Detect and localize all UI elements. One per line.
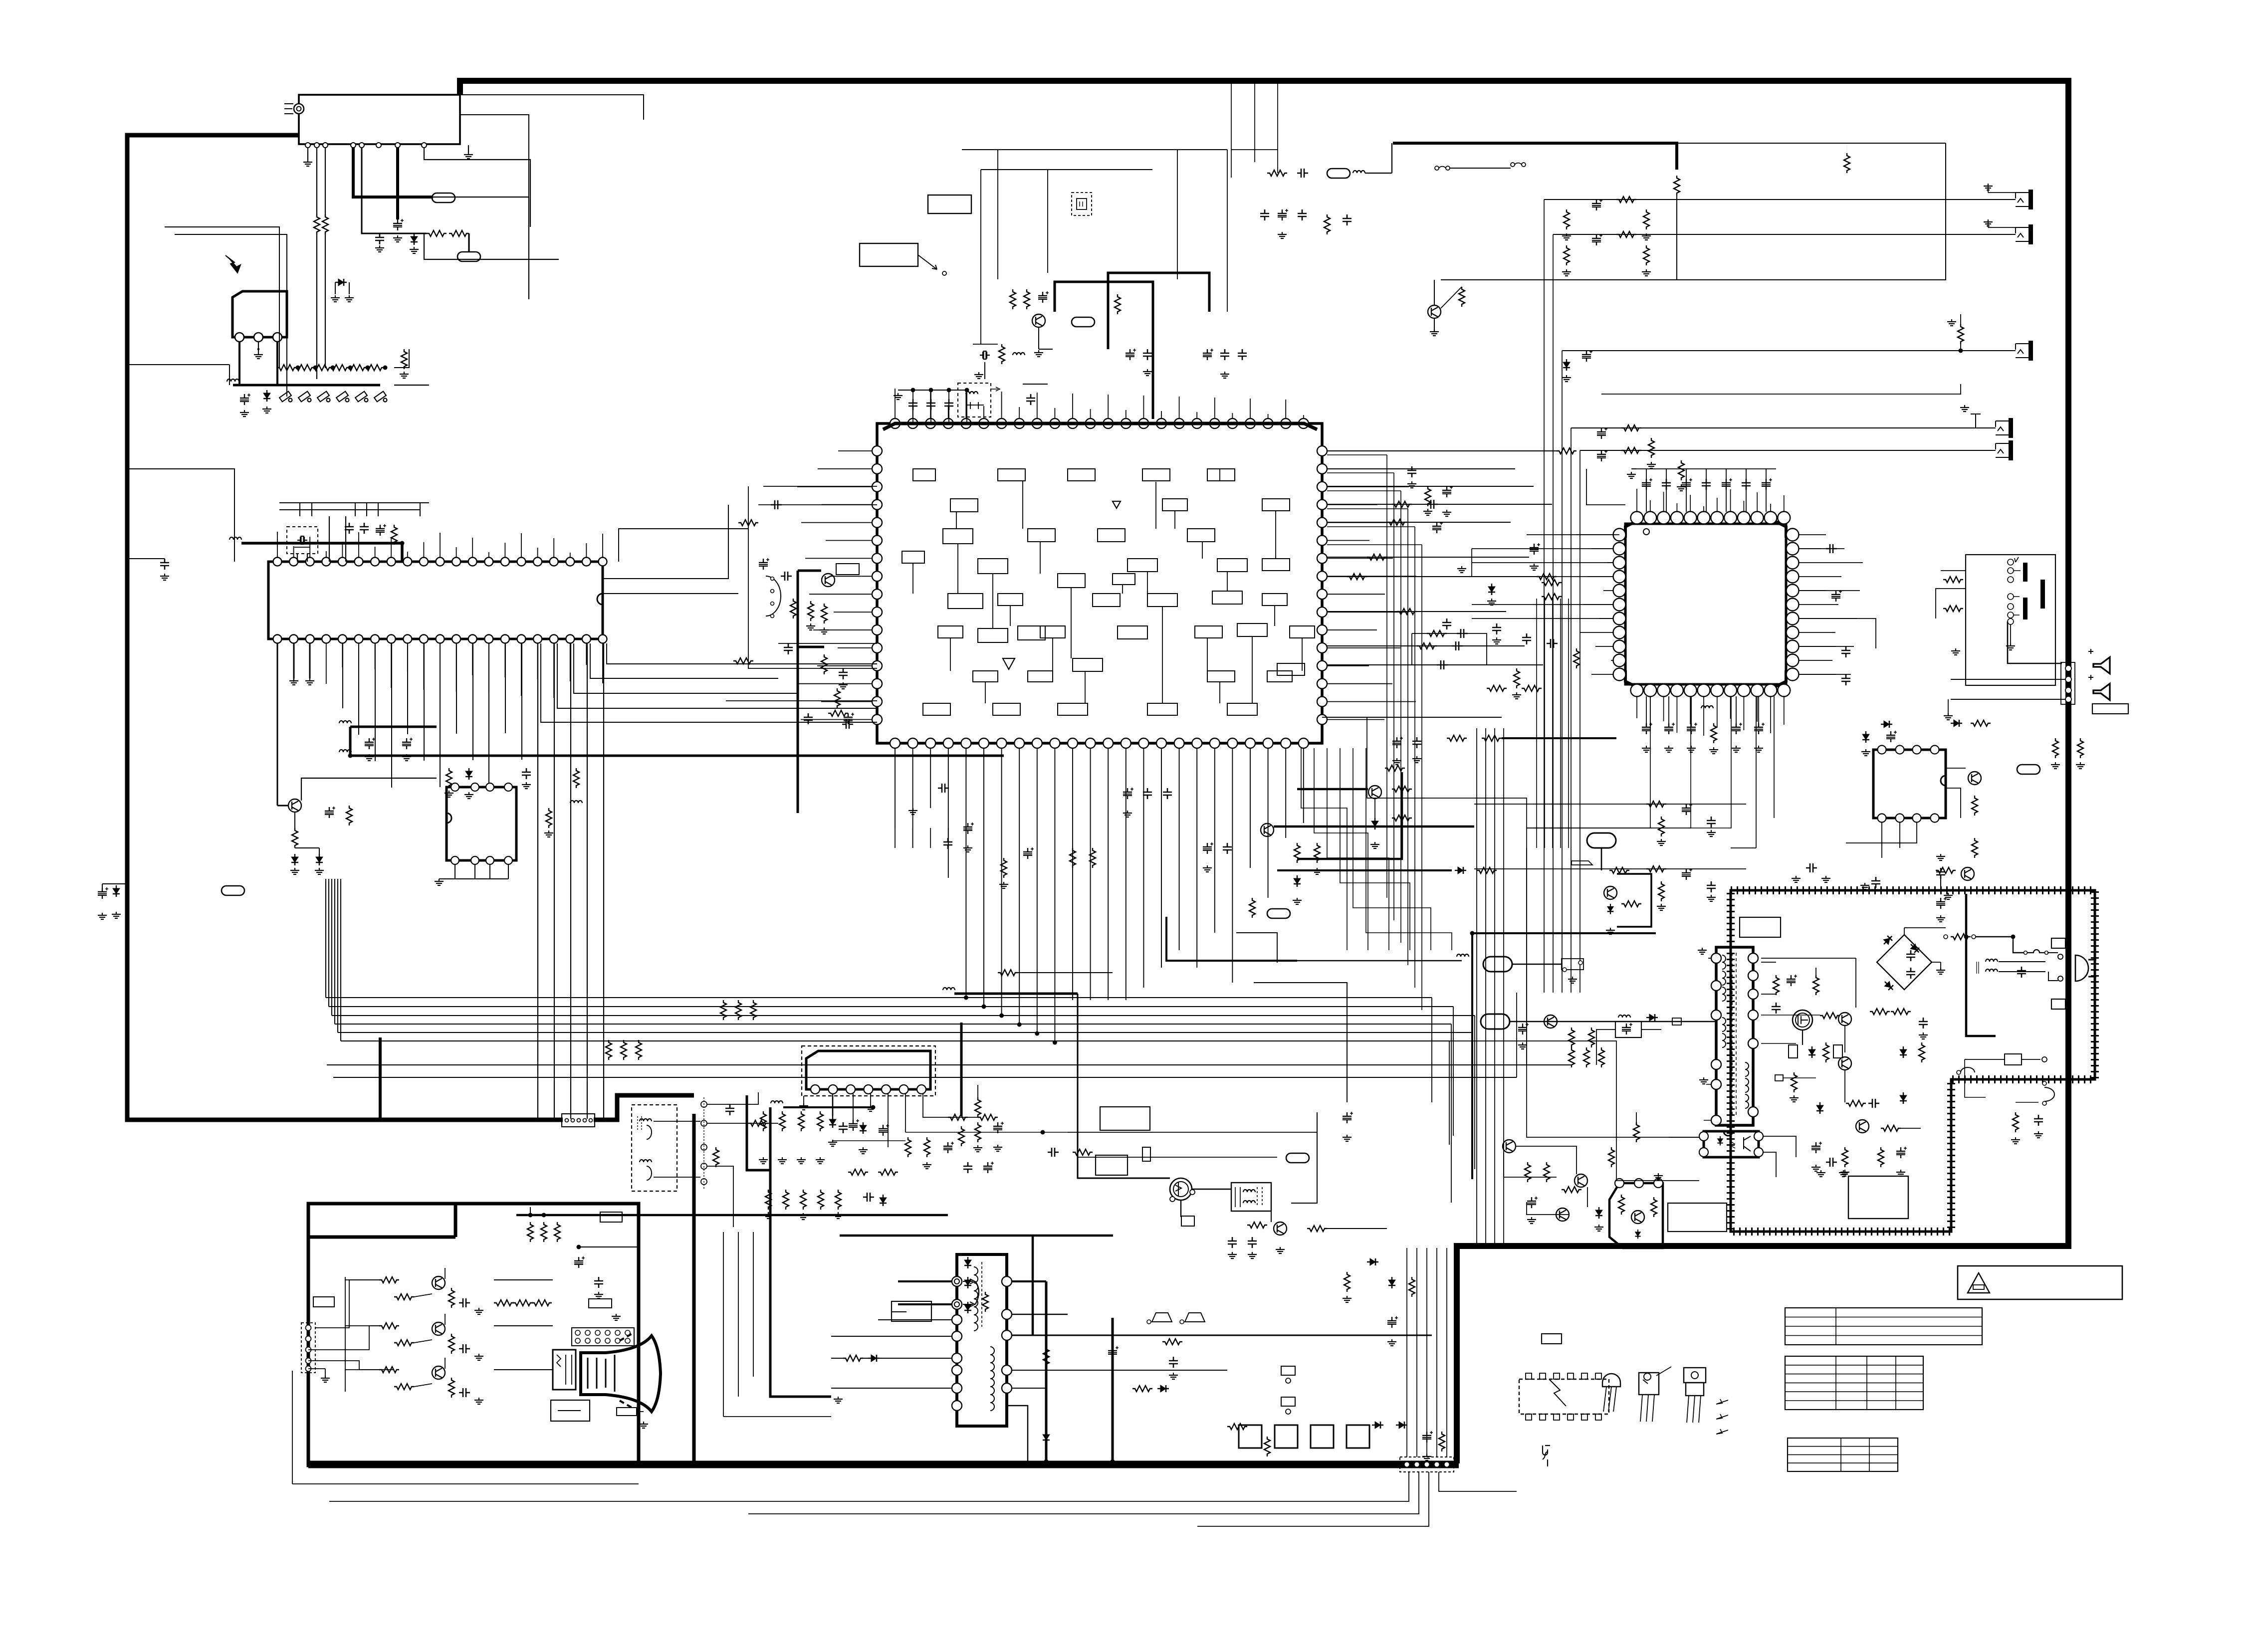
IC401 QFP body	[1625, 524, 1786, 684]
thick feed to IC201	[241, 543, 402, 562]
resistor group above	[1010, 289, 1016, 309]
resistor R	[1674, 176, 1680, 196]
left board outline	[127, 135, 563, 1120]
wires below QFP to PSU	[1756, 696, 1757, 848]
IC201 pins top	[273, 558, 282, 566]
PSU interior parts	[1773, 975, 1779, 995]
power pills	[1483, 957, 1512, 972]
IC201 bottom pin wires	[289, 678, 298, 685]
IC301 interior connection lines	[957, 544, 958, 594]
headphone jack box	[1966, 555, 2055, 685]
table 2	[1785, 1356, 1923, 1410]
left board outline lower jog	[594, 1095, 694, 1120]
transistor Q303	[822, 574, 835, 587]
T601 pins right	[1748, 953, 1758, 963]
IC402 pins	[1878, 746, 1886, 754]
transistor Q304 feed	[1261, 824, 1274, 836]
label box above IC	[860, 243, 918, 266]
IC301 pins top	[890, 418, 900, 428]
wire tuner SDA/SCL	[325, 148, 326, 214]
left frame AGC wire	[128, 364, 229, 365]
transistor Q201	[288, 799, 301, 812]
box above IC301 second	[928, 195, 971, 213]
connector CN on left outline	[562, 1114, 595, 1127]
resistor R103	[314, 214, 320, 234]
focus pot	[975, 1281, 979, 1304]
wires from top border down	[1231, 84, 1232, 178]
IC402 surroundings	[1881, 721, 1892, 728]
wire tuner AFT	[362, 148, 427, 233]
pill below	[1267, 909, 1290, 918]
staircase wire bundle	[1301, 748, 1347, 950]
ceramic cap net	[1826, 1158, 1837, 1167]
wires H section	[1180, 1200, 1181, 1217]
caps above IC201	[345, 523, 354, 534]
thick 9V line to right	[1274, 826, 1474, 828]
IC202 bottom wires	[454, 864, 455, 879]
IC201 notch	[597, 594, 603, 605]
IC401 pins left	[1613, 529, 1626, 541]
inductor L201	[229, 537, 241, 540]
IC401 pin stubs	[1636, 489, 1637, 512]
main board outline (top/right border)	[460, 81, 2068, 1463]
resistor R106	[427, 230, 447, 236]
standby parts	[1525, 1162, 1531, 1182]
headphone wires to left	[1936, 571, 1966, 619]
label pill	[1072, 317, 1095, 327]
cluster caps below IC301 left	[895, 828, 896, 848]
wires standby area	[1516, 1146, 1577, 1174]
bridge rectifier D601	[1877, 935, 1932, 990]
transistor Q605	[1503, 1140, 1516, 1153]
wires right column risers	[1516, 993, 1517, 1077]
IC401 pins bottom	[1631, 684, 1643, 697]
IC301 pins left	[872, 446, 882, 456]
transistor Q603	[1838, 1057, 1851, 1070]
T501 diodes internal	[964, 1257, 971, 1268]
IC401 pin1 mark	[1643, 529, 1649, 535]
yoke wires	[654, 1121, 700, 1122]
audio coil feed	[771, 1101, 783, 1103]
IC301 pins bottom	[890, 738, 900, 748]
SMPS transformer T601 body	[1716, 947, 1753, 1125]
transistor Q608	[1631, 1211, 1644, 1224]
IC402 8-pin body	[1873, 750, 1946, 818]
IC301 pin stubs top	[895, 389, 896, 418]
speaker wires	[1951, 679, 2065, 699]
wires QFP bottom long	[1527, 696, 1650, 828]
thick vertical feed left of IC301	[798, 571, 824, 813]
table 1	[1785, 1308, 1982, 1345]
horizontal output Q502	[1170, 1178, 1192, 1200]
CRT funnel	[581, 1336, 661, 1412]
IC201 pins bottom	[273, 635, 282, 643]
CRT board outline	[308, 1204, 639, 1465]
thick rail y1515 long	[350, 755, 1004, 757]
wires below IC301 turning right	[1236, 933, 1277, 963]
label pill left	[222, 886, 244, 895]
wires IC301 right to QFP	[1327, 450, 1497, 451]
IC601 pins	[811, 1085, 820, 1094]
RC loop	[1412, 633, 1487, 665]
wire tuner B+ thick	[353, 148, 433, 197]
IC301 interior blocks	[943, 529, 973, 544]
crystal X201 dashed box	[287, 527, 318, 554]
IC301 interior triangle	[1003, 658, 1015, 669]
diode D601a	[829, 1116, 836, 1128]
wires into CRT board	[315, 1280, 379, 1328]
grid wires	[494, 1280, 553, 1370]
H drive thick feed	[960, 1023, 963, 1116]
T501 windings	[977, 1267, 978, 1309]
IC301 pin stubs left	[838, 450, 872, 451]
thick aux line	[1277, 869, 1452, 871]
rail components	[446, 768, 452, 788]
audio amplifier IC601 dashed outline	[802, 1046, 935, 1096]
thick wire H-out	[954, 993, 1078, 995]
AGC cap cluster	[839, 668, 848, 679]
caps above QFP	[1642, 478, 1652, 490]
degauss posistor	[2005, 1054, 2022, 1065]
IC601 right parts	[923, 1094, 978, 1117]
jack wiring y700	[1562, 350, 2016, 351]
transistor video out	[432, 1322, 445, 1335]
CRT right components	[594, 1277, 603, 1288]
mid gap wires	[1068, 1132, 1317, 1133]
IC301 pin stubs right	[1327, 450, 1362, 451]
jumper arcs	[1435, 166, 1439, 170]
capacitor	[1026, 394, 1035, 405]
components left of QFP	[1542, 580, 1562, 586]
driver transformer T401	[1231, 1183, 1271, 1211]
crystal circuit	[980, 351, 990, 359]
wire bundle right down	[1476, 728, 1477, 1246]
transistor Q401	[1274, 1222, 1287, 1235]
T501 pins right	[1002, 1276, 1012, 1286]
volume wire	[905, 1132, 1068, 1133]
pill VT	[1327, 169, 1350, 178]
thick verticals above IC301	[1055, 282, 1153, 419]
wire long from tuner to right	[424, 233, 559, 259]
wires below IC301	[895, 748, 896, 828]
error amp transistor pentagon	[1609, 1183, 1663, 1248]
wires under bus	[329, 1472, 1409, 1501]
IC301 jungle main body	[877, 423, 1322, 743]
electrolytic cap C105	[393, 219, 404, 230]
IC202 8-pin body	[447, 787, 516, 860]
trim pots row	[279, 392, 292, 402]
PSU label box	[1740, 917, 1781, 937]
resistor R104	[322, 214, 328, 234]
capacitor C106	[375, 233, 384, 244]
mains filter	[1986, 959, 1998, 962]
inductor L202	[339, 721, 351, 723]
antenna input symbol	[294, 104, 304, 114]
connector on ground bus	[1400, 1457, 1454, 1472]
wires QFP top to left	[1586, 469, 1625, 505]
frame bypass caps	[98, 887, 108, 899]
electrolytic C601	[849, 1119, 859, 1131]
transistor Q607	[1556, 1208, 1569, 1221]
transistor video out	[432, 1366, 445, 1379]
resistor	[1844, 153, 1850, 173]
IC301 top edge thick segments	[883, 423, 1317, 429]
wires IC201 to IC301	[603, 505, 728, 579]
RCA jack group top	[2016, 190, 2033, 209]
vertical wires to connector	[1406, 1248, 1407, 1457]
T601 ground	[1698, 948, 1707, 954]
PSU isolation hatched outline	[1731, 890, 2095, 1232]
capacitor	[784, 643, 793, 654]
transistor Q403	[1961, 867, 1974, 880]
label boxes lower mid	[1100, 1107, 1150, 1130]
label rect right	[2092, 704, 2128, 714]
resistor	[1162, 1339, 1182, 1345]
degauss relay	[1615, 1022, 1641, 1037]
CRT socket	[553, 1350, 576, 1390]
yoke connector pins	[701, 1101, 707, 1107]
IC401 corner marks	[1625, 520, 1639, 538]
inductor L203	[339, 750, 351, 752]
IC401 pins right	[1787, 529, 1799, 541]
inductor L303	[943, 988, 955, 990]
inductor L101	[227, 379, 239, 382]
headphone output wire	[2008, 621, 2062, 663]
vertical bundle from IC301 right pins	[1386, 455, 1387, 898]
bus wires above IC201	[279, 502, 429, 503]
components right of QFP	[1831, 590, 1842, 602]
warning label box	[1958, 1266, 2122, 1299]
vertical bus bundle to bottom	[537, 643, 538, 1119]
CRT board connector	[301, 1323, 315, 1373]
stepped wires to PSU area	[1322, 717, 1699, 1137]
transistor Q301	[1032, 314, 1045, 327]
B+ pill and regulator	[1587, 833, 1616, 848]
zener D101	[411, 233, 418, 245]
remote arrow	[225, 255, 240, 273]
fuse legend	[1543, 1445, 1550, 1466]
label pill B+ tuner	[432, 193, 455, 203]
RC pairs on QFP wires	[1392, 501, 1412, 507]
wire AGC thick	[396, 148, 399, 219]
T601 windings	[1722, 955, 1726, 969]
bridge caps	[1896, 948, 1906, 968]
wire IC402 to speakers	[1946, 768, 1966, 818]
electrolytic	[1343, 1112, 1353, 1123]
wire bundle left of QFP	[1536, 599, 1537, 848]
section boundary stepped	[747, 1095, 770, 1170]
IC301 interior extra blocks	[902, 551, 924, 563]
long wire QFP bottom to PSU	[1713, 748, 1714, 848]
IC301 pin wires joining buses	[964, 996, 968, 1000]
heater wire	[1007, 1406, 1028, 1461]
transistor Q310	[1604, 886, 1617, 899]
wires above to transistor	[1434, 280, 1435, 305]
IC301 pins right	[1317, 446, 1327, 456]
deflection yoke dashed box	[632, 1105, 677, 1191]
audio RC rows	[1474, 804, 1746, 805]
resistor R111	[401, 349, 407, 369]
wires from tuner box right to main border	[460, 115, 529, 299]
IF bus thick	[233, 384, 380, 387]
wires central down-left	[831, 756, 832, 994]
mid band resistors	[606, 1040, 612, 1060]
label pill AFT	[457, 252, 480, 261]
bridge input resistor	[1944, 935, 1948, 939]
legend arrows	[1716, 1399, 1728, 1404]
label box near hatch	[1668, 1203, 1727, 1232]
MOSFET Q601	[1793, 1010, 1812, 1030]
caps below right	[1392, 737, 1403, 748]
video section extra resistors	[765, 1190, 771, 1210]
fuse F601	[2028, 950, 2045, 953]
transistor Q311	[1544, 1015, 1557, 1028]
thick secondary verticals	[1045, 1281, 1048, 1461]
components below QFP	[1642, 723, 1652, 734]
jack contacts	[2008, 559, 2014, 565]
AC plug	[2075, 955, 2088, 981]
wire vertical riser x762	[379, 1037, 382, 1120]
PC601 internals	[1718, 1138, 1723, 1144]
tuner pins	[305, 143, 310, 148]
components above IC301	[958, 383, 991, 417]
PSU wires	[1761, 958, 1856, 994]
transistor Q604	[1856, 1120, 1869, 1133]
horizontal bus wires	[326, 997, 1432, 998]
thick B+ feed	[1966, 894, 1996, 1036]
wire headphone feed	[1601, 384, 1961, 394]
flyback transformer T501 body	[957, 1254, 1007, 1426]
IC201 microcontroller DIP body	[268, 562, 603, 639]
CRT board lower line	[292, 1483, 639, 1484]
transistor Q402	[1968, 772, 1981, 785]
caps near yoke	[725, 1104, 734, 1115]
wire tuner pin9	[424, 148, 530, 227]
video out section resistors	[760, 1111, 766, 1131]
bus left risers	[325, 879, 326, 998]
boxes row bottom	[1239, 1425, 1262, 1448]
CRT board labels	[313, 1297, 334, 1307]
PSU right small boxes	[2051, 938, 2065, 948]
thick rail y1457	[350, 726, 437, 728]
IC201 pin stubs bottom	[277, 643, 278, 663]
thick top feed	[1393, 143, 1677, 170]
table 3	[1788, 1438, 1898, 1471]
transistor Q602	[1838, 1013, 1851, 1026]
PSU bottom caps	[2013, 1112, 2019, 1132]
resistor	[821, 604, 827, 623]
IC601 bottom parts	[799, 1103, 808, 1110]
SAW filter dashed	[1072, 193, 1092, 215]
cap above PSU	[1806, 863, 1817, 872]
switch jumpers	[1152, 1313, 1172, 1322]
jack wiring y400	[1544, 199, 2016, 200]
capacitor	[1048, 1148, 1059, 1157]
T501 focus/screen leads	[963, 1279, 975, 1284]
transistor video out	[432, 1276, 445, 1289]
package TO220	[1684, 1368, 1706, 1383]
connector on border	[2061, 662, 2075, 704]
standby B+ rail	[1472, 932, 1656, 934]
wire from left frame to IC area	[127, 469, 234, 562]
ground bus (bottom very thick line)	[308, 1461, 1459, 1468]
tuner pin wires and ground	[303, 160, 312, 166]
package TO92	[1602, 1374, 1620, 1387]
top area wires	[962, 149, 1227, 150]
wires continuing to QFP pins	[1472, 548, 1613, 549]
IC202 pins	[451, 783, 459, 791]
long vertical wires left area	[165, 227, 279, 368]
T501 wiring right	[1012, 1280, 1046, 1282]
T501 wiring left	[898, 1280, 952, 1282]
jack wiring bottom pair	[1571, 427, 1996, 428]
tuner TU101 box	[299, 95, 460, 144]
wire top tuner to right	[460, 95, 644, 120]
transistor Q302	[1428, 305, 1441, 318]
CRT heater resistors	[527, 1222, 533, 1242]
bus right risers	[1431, 998, 1432, 1102]
diode	[1367, 1258, 1378, 1265]
T601 pins left	[1711, 953, 1721, 963]
wires between CRT and FBT	[723, 1232, 724, 1417]
caps top cluster	[1260, 209, 1269, 220]
diode D103	[335, 279, 347, 286]
fuse resistor	[1142, 1147, 1150, 1161]
package drawing DIP	[1519, 1379, 1609, 1414]
IF transformer left	[766, 576, 781, 616]
capacitor	[771, 500, 782, 509]
IR receiver / front connector	[232, 291, 287, 337]
electrolytic C108	[240, 394, 250, 405]
resistor R107	[449, 230, 469, 236]
thick feed on CRT board	[516, 1214, 948, 1217]
wire hatch top cap	[1871, 877, 1880, 888]
IC601 body	[806, 1051, 930, 1089]
AGC resistor row	[277, 365, 297, 371]
optocoupler PC601 body	[1704, 1131, 1759, 1157]
IC201 pin stubs top	[277, 532, 278, 557]
package TO126	[1639, 1373, 1659, 1395]
thick audio ground drop	[692, 1114, 696, 1461]
transistor Q309	[1368, 786, 1381, 799]
label pill H-drive	[1286, 1153, 1309, 1163]
speakers	[2093, 657, 2110, 674]
small box legend	[1542, 1334, 1562, 1344]
T501 pins left	[952, 1276, 962, 1286]
CRT socket grid	[572, 1328, 634, 1346]
IC401 pins top	[1631, 512, 1643, 524]
diode D102	[263, 390, 270, 402]
RGB resistors	[379, 1277, 399, 1283]
transistor Q606	[1575, 1174, 1587, 1187]
